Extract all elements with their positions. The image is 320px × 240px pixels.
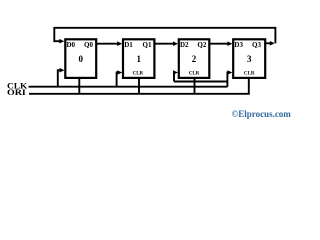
- svg-text:1: 1: [136, 54, 141, 64]
- svg-text:Q3: Q3: [252, 41, 261, 49]
- svg-text:CLR: CLR: [133, 72, 144, 77]
- svg-text:0: 0: [78, 54, 83, 64]
- svg-text:2: 2: [192, 54, 197, 64]
- svg-text:D3: D3: [234, 41, 243, 49]
- svg-text:©Elprocus.com: ©Elprocus.com: [232, 109, 292, 119]
- svg-text:D1: D1: [124, 41, 133, 49]
- svg-text:D0: D0: [67, 41, 76, 49]
- svg-text:3: 3: [247, 54, 252, 64]
- svg-text:Q0: Q0: [84, 41, 93, 49]
- svg-text:Q2: Q2: [197, 41, 206, 49]
- svg-text:CLR: CLR: [244, 72, 255, 77]
- svg-text:ORI: ORI: [7, 88, 26, 97]
- svg-text:CLR: CLR: [189, 72, 200, 77]
- svg-text:D2: D2: [180, 41, 189, 49]
- svg-text:Q1: Q1: [143, 41, 152, 49]
